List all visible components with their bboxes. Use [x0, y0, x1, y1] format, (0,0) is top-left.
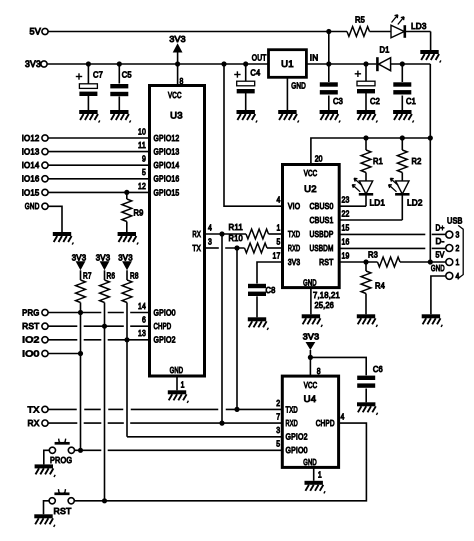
- svg-text:GPIO0: GPIO0: [286, 445, 308, 455]
- svg-text:2: 2: [456, 243, 460, 253]
- svg-text:GND: GND: [291, 80, 306, 90]
- svg-text:GND: GND: [431, 263, 445, 273]
- svg-text:GPIO13: GPIO13: [154, 147, 180, 157]
- svg-text:R7: R7: [83, 271, 92, 281]
- svg-text:9: 9: [142, 154, 146, 164]
- svg-text:USBDM: USBDM: [310, 243, 334, 253]
- svg-text:IO13: IO13: [22, 147, 40, 157]
- svg-text:VCC: VCC: [168, 90, 182, 100]
- svg-text:1: 1: [318, 470, 322, 480]
- svg-text:R8: R8: [130, 271, 139, 281]
- svg-text:11: 11: [138, 140, 146, 150]
- svg-text:12: 12: [138, 181, 146, 191]
- svg-text:R1: R1: [373, 156, 383, 166]
- svg-text:5: 5: [277, 236, 281, 246]
- svg-text:14: 14: [138, 301, 146, 311]
- svg-text:1: 1: [456, 257, 460, 267]
- svg-text:R11: R11: [229, 222, 243, 232]
- svg-text:TX: TX: [28, 404, 40, 414]
- svg-text:3V3: 3V3: [303, 332, 320, 342]
- svg-text:CHPD: CHPD: [154, 321, 172, 331]
- svg-text:PRG: PRG: [22, 307, 39, 317]
- svg-text:5V: 5V: [436, 250, 445, 260]
- svg-text:RX: RX: [192, 229, 201, 239]
- svg-text:RX: RX: [28, 418, 40, 428]
- svg-text:D+: D+: [436, 222, 445, 232]
- svg-text:VCC: VCC: [304, 380, 318, 390]
- svg-text:USB: USB: [447, 216, 463, 226]
- svg-text:25,26: 25,26: [315, 300, 335, 310]
- svg-text:IO16: IO16: [22, 174, 40, 184]
- svg-text:GPIO14: GPIO14: [154, 160, 180, 170]
- svg-text:GPIO2: GPIO2: [154, 335, 176, 345]
- svg-text:1: 1: [277, 222, 281, 232]
- svg-text:GPIO0: GPIO0: [154, 307, 176, 317]
- svg-text:20: 20: [315, 153, 323, 163]
- svg-text:15: 15: [342, 222, 350, 232]
- svg-text:LD3: LD3: [411, 21, 427, 31]
- svg-text:3V3: 3V3: [118, 252, 133, 262]
- svg-text:5V: 5V: [30, 27, 42, 37]
- svg-text:5: 5: [276, 439, 280, 449]
- svg-text:C5: C5: [122, 70, 132, 80]
- svg-text:LD1: LD1: [370, 198, 386, 208]
- svg-text:U4: U4: [304, 394, 317, 405]
- svg-text:R5: R5: [355, 15, 365, 25]
- svg-text:C8: C8: [266, 285, 276, 295]
- svg-text:17: 17: [273, 250, 281, 260]
- svg-text:7,18,21: 7,18,21: [313, 290, 340, 300]
- svg-text:IO15: IO15: [22, 187, 40, 197]
- svg-text:U1: U1: [281, 59, 294, 70]
- svg-text:8: 8: [180, 76, 184, 86]
- svg-text:IO2: IO2: [22, 335, 39, 345]
- svg-text:3V3: 3V3: [288, 257, 300, 267]
- svg-text:6: 6: [142, 315, 146, 325]
- svg-text:OUT: OUT: [252, 53, 267, 63]
- svg-text:1: 1: [181, 380, 185, 390]
- svg-text:R10: R10: [229, 233, 243, 243]
- svg-text:CBUS1: CBUS1: [310, 215, 334, 225]
- svg-text:GPIO15: GPIO15: [154, 187, 180, 197]
- svg-text:5: 5: [142, 167, 146, 177]
- svg-text:VIO: VIO: [288, 201, 300, 211]
- svg-text:23: 23: [342, 195, 350, 205]
- svg-text:3: 3: [456, 230, 460, 240]
- svg-text:GPIO12: GPIO12: [154, 133, 180, 143]
- svg-text:D1: D1: [380, 45, 390, 55]
- svg-text:2: 2: [276, 398, 280, 408]
- svg-text:RXD: RXD: [286, 418, 298, 428]
- svg-text:C4: C4: [250, 67, 260, 77]
- svg-text:3V3: 3V3: [169, 34, 186, 44]
- svg-text:CBUS0: CBUS0: [310, 201, 334, 211]
- svg-text:GND: GND: [170, 365, 184, 375]
- svg-text:R6: R6: [107, 271, 116, 281]
- svg-text:22: 22: [342, 208, 350, 218]
- svg-text:IO0: IO0: [22, 348, 39, 358]
- svg-text:IO14: IO14: [22, 160, 40, 170]
- svg-text:RXD: RXD: [288, 243, 300, 253]
- svg-text:3: 3: [276, 425, 280, 435]
- svg-text:LD2: LD2: [407, 198, 423, 208]
- svg-text:RST: RST: [319, 257, 334, 267]
- svg-text:GND: GND: [25, 201, 40, 211]
- svg-text:GPIO16: GPIO16: [154, 174, 180, 184]
- svg-text:C7: C7: [93, 70, 103, 80]
- svg-text:3: 3: [208, 236, 212, 246]
- svg-text:VCC: VCC: [304, 168, 318, 178]
- svg-text:TXD: TXD: [286, 404, 298, 414]
- svg-text:RST: RST: [54, 506, 73, 516]
- svg-text:13: 13: [138, 328, 146, 338]
- svg-text:IN: IN: [310, 53, 319, 63]
- svg-text:GND: GND: [303, 457, 317, 467]
- svg-text:8: 8: [317, 366, 321, 376]
- svg-text:3V3: 3V3: [25, 59, 41, 69]
- svg-text:3V3: 3V3: [96, 252, 111, 262]
- svg-text:D-: D-: [436, 236, 445, 246]
- svg-text:PROG: PROG: [50, 455, 72, 465]
- svg-text:16: 16: [342, 236, 350, 246]
- svg-text:C6: C6: [373, 364, 383, 374]
- svg-text:TXD: TXD: [288, 229, 300, 239]
- svg-text:4: 4: [277, 195, 281, 205]
- svg-text:U2: U2: [304, 184, 317, 195]
- svg-text:10: 10: [138, 126, 146, 136]
- svg-text:TX: TX: [192, 243, 201, 253]
- svg-text:C2: C2: [370, 96, 380, 106]
- svg-text:19: 19: [342, 250, 350, 260]
- svg-text:GND: GND: [303, 278, 317, 288]
- svg-text:4: 4: [341, 412, 345, 422]
- svg-text:C3: C3: [333, 96, 343, 106]
- svg-text:3V3: 3V3: [72, 252, 87, 262]
- svg-text:C1: C1: [406, 96, 416, 106]
- svg-text:R2: R2: [412, 156, 422, 166]
- svg-text:4: 4: [456, 271, 460, 281]
- svg-text:IO12: IO12: [22, 133, 40, 143]
- svg-text:USBDP: USBDP: [310, 229, 334, 239]
- svg-text:GPIO2: GPIO2: [286, 432, 308, 442]
- svg-text:R3: R3: [368, 250, 378, 260]
- svg-text:R4: R4: [375, 281, 385, 291]
- svg-text:CHPD: CHPD: [316, 418, 335, 428]
- svg-text:RST: RST: [22, 321, 40, 331]
- svg-text:R9: R9: [134, 208, 144, 218]
- svg-text:7: 7: [276, 412, 280, 422]
- svg-text:U3: U3: [170, 111, 183, 122]
- svg-text:4: 4: [208, 222, 212, 232]
